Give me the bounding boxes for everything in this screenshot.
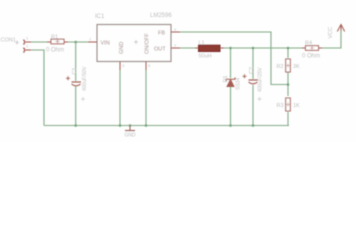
svg-text:0 Ohm: 0 Ohm <box>302 54 320 60</box>
svg-text:VIN: VIN <box>101 40 110 46</box>
svg-text:0 Ohm: 0 Ohm <box>46 48 64 54</box>
power symbol VCC <box>337 25 344 32</box>
wire: ground rail <box>44 125 289 127</box>
svg-text:3K: 3K <box>293 64 300 70</box>
wire: IC ON/OFF pin down to rail <box>145 69 147 126</box>
pin FB (4) <box>171 31 180 33</box>
wire: FB net <box>177 32 288 85</box>
pin ON/OFF (5) <box>145 62 147 71</box>
svg-text:C1: C1 <box>72 67 78 74</box>
svg-text:400uF/50V: 400uF/50V <box>82 66 88 91</box>
node: rail junction C1 <box>74 124 77 127</box>
svg-text:5: 5 <box>148 63 151 68</box>
svg-text:CON1: CON1 <box>1 38 16 44</box>
IC origin cross <box>134 40 138 44</box>
node: OUT net junction at C2 <box>252 47 255 50</box>
pin OUT (2) <box>171 47 180 49</box>
svg-text:R3: R3 <box>277 103 284 109</box>
svg-text:1: 1 <box>89 37 92 42</box>
svg-text:3: 3 <box>122 63 125 68</box>
resistor R3 <box>286 98 291 111</box>
wire: junction down to C1 <box>75 42 77 81</box>
wire: R1 to VIN junction <box>67 41 88 43</box>
wire: CON1 pin2 right then down to rail <box>26 50 44 126</box>
resistor R2 <box>286 59 291 72</box>
node: rail junction D1 <box>229 124 232 127</box>
svg-text:2: 2 <box>26 44 29 49</box>
svg-text:R2: R2 <box>277 64 284 70</box>
svg-text:GND: GND <box>119 42 125 54</box>
svg-text:4: 4 <box>174 27 177 32</box>
node: rail junction ON/OFF <box>145 124 148 127</box>
wire: CON1 pin1 to R1 <box>26 41 48 43</box>
svg-text:L1: L1 <box>199 40 205 46</box>
svg-text:OUT: OUT <box>154 46 166 52</box>
svg-text:1K: 1K <box>293 103 300 109</box>
wire: L1 to R4 <box>223 47 302 49</box>
node: rail junction IC GND <box>119 124 122 127</box>
wire: C2 branch <box>252 48 254 79</box>
svg-text:400uF/25V: 400uF/25V <box>258 67 264 92</box>
svg-text:LM2596: LM2596 <box>150 13 172 19</box>
ground <box>129 126 131 131</box>
svg-text:GND: GND <box>125 133 137 139</box>
svg-text:SS34: SS34 <box>236 78 242 90</box>
svg-text:IC1: IC1 <box>95 14 105 20</box>
svg-text:2: 2 <box>174 43 177 48</box>
wire: D1 branch <box>230 48 232 78</box>
inductor L1 <box>199 45 221 51</box>
node VIN junction <box>74 41 77 44</box>
capacitor C1 <box>72 81 82 83</box>
node: FB junction at R2/R3 <box>287 83 290 86</box>
resistor R1 <box>51 39 64 44</box>
wire: OUT pin to L1 <box>177 47 196 49</box>
svg-text:R4: R4 <box>305 41 312 47</box>
svg-text:1: 1 <box>26 36 29 41</box>
svg-text:R1: R1 <box>51 35 58 41</box>
svg-text:ON/OFF: ON/OFF <box>145 33 151 54</box>
svg-text:D1: D1 <box>223 75 229 82</box>
pin GND (3) <box>119 62 121 71</box>
svg-text:FB: FB <box>158 30 165 36</box>
capacitor C2 <box>249 79 259 81</box>
pin VIN (1) <box>88 41 97 43</box>
IC IC1 LM2596 regulator box <box>97 25 171 62</box>
svg-text:VCC: VCC <box>328 27 334 39</box>
node: rail junction C2 <box>252 124 255 127</box>
connector CON1 <box>23 40 24 45</box>
resistor R4 <box>306 46 319 51</box>
node: rail junction GND symbol <box>129 124 132 127</box>
wire: IC GND pin down to rail <box>119 69 121 126</box>
diode D1 <box>227 80 234 87</box>
wire: R4 to VCC <box>322 31 341 48</box>
node: OUT net junction at D1 <box>229 47 232 50</box>
node: OUT net junction at R2 <box>287 47 290 50</box>
wire: R2 bottom to FB junction <box>287 72 289 96</box>
wire: R3 bottom to rail <box>287 112 289 126</box>
svg-text:C2: C2 <box>249 67 255 74</box>
svg-text:50uH: 50uH <box>199 54 212 60</box>
wire: R2 top branch <box>287 48 289 58</box>
wire: C1 bottom to ground rail <box>75 87 77 126</box>
